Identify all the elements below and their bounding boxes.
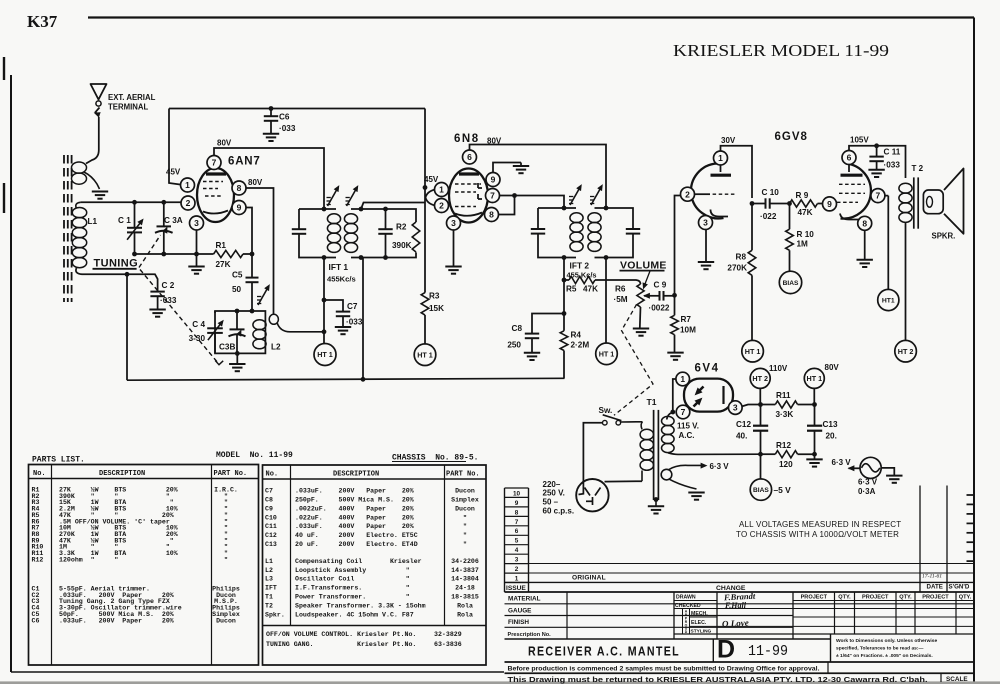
terminal HT1 under R8 bbox=[742, 340, 764, 362]
svg-text:20.: 20. bbox=[826, 432, 837, 441]
svg-text:R 9: R 9 bbox=[796, 191, 809, 200]
wire 6.3V winding to pilot bbox=[668, 465, 703, 470]
svg-text:1: 1 bbox=[439, 185, 444, 195]
wire pins 1 2 to 45V rail bbox=[426, 190, 436, 198]
svg-text:27K: 27K bbox=[216, 260, 231, 269]
svg-text:SPKR.: SPKR. bbox=[932, 232, 956, 241]
svg-text:K37: K37 bbox=[27, 12, 58, 31]
svg-text:7: 7 bbox=[212, 158, 217, 168]
speaker voice coil bbox=[923, 190, 943, 214]
pin 2 of 6N8 bbox=[435, 199, 449, 213]
svg-text:270K: 270K bbox=[727, 264, 747, 273]
svg-text:7: 7 bbox=[681, 407, 686, 417]
pin 9 of 6GV8 pentode bbox=[823, 197, 837, 211]
capacitor C8 250 bbox=[532, 314, 564, 334]
sheet border frame bbox=[88, 16, 974, 18]
svg-text:6AN7: 6AN7 bbox=[228, 156, 261, 168]
svg-text:L1: L1 bbox=[265, 558, 273, 565]
capacitor C13 20uF bbox=[814, 405, 816, 426]
IFT1 core arrow secondary bbox=[347, 188, 358, 207]
node C1 top bbox=[132, 200, 137, 205]
mains plug 220-250V bbox=[576, 479, 608, 511]
svg-text:3: 3 bbox=[703, 218, 708, 228]
svg-text:80V: 80V bbox=[825, 363, 840, 372]
node IFT1 primary bottom bbox=[322, 255, 327, 260]
svg-text:2: 2 bbox=[685, 189, 690, 199]
T2 core bbox=[913, 177, 915, 228]
svg-text:3-30: 3-30 bbox=[189, 334, 206, 343]
svg-text:SCALE: SCALE bbox=[946, 676, 968, 683]
svg-text:·0022: ·0022 bbox=[649, 304, 670, 313]
svg-text:R7: R7 bbox=[681, 315, 692, 324]
svg-text:Work to Dimensions only. Unle: Work to Dimensions only. Unless otherwis… bbox=[836, 638, 937, 644]
date signed columns bbox=[919, 486, 921, 593]
svg-text:10M: 10M bbox=[680, 326, 696, 335]
capacitor C4 3-30 osc trimmer bbox=[207, 327, 223, 329]
svg-text:± 1/64" on Fractions. ± .005": ± 1/64" on Fractions. ± .005" on Decimal… bbox=[836, 653, 933, 659]
svg-text:Prescription No.: Prescription No. bbox=[508, 632, 552, 638]
svg-text:IFT: IFT bbox=[265, 585, 277, 592]
svg-text:PART No.: PART No. bbox=[446, 471, 480, 479]
svg-text:60 c.p.s.: 60 c.p.s. bbox=[543, 507, 575, 516]
6AN7 cathode bbox=[203, 211, 228, 214]
svg-text:110V: 110V bbox=[769, 364, 788, 373]
node IFT1 sec cap bottom bbox=[383, 255, 388, 260]
svg-text:": " bbox=[463, 532, 467, 539]
svg-text:40 uF. 200V Electro. ET5: 40 uF. 200V Electro. ET5C bbox=[295, 532, 418, 539]
svg-text:IFT 1: IFT 1 bbox=[329, 262, 349, 272]
wire plug to T1 primary bottom bbox=[605, 480, 643, 482]
svg-text:QTY.: QTY. bbox=[838, 595, 851, 601]
pin 7 of 6N8 bbox=[486, 189, 500, 203]
svg-text:Loopstick Assembly ": Loopstick Assembly " bbox=[295, 567, 410, 574]
node IFT1 sec cap top bbox=[383, 207, 388, 212]
svg-text:Ducon: Ducon bbox=[455, 505, 475, 512]
svg-text:7: 7 bbox=[515, 519, 519, 526]
svg-text:Speaker Transformer. 3.3K - 15: Speaker Transformer. 3.3K - 15ohm bbox=[295, 602, 426, 609]
wire pin2 from tuner rail bbox=[181, 201, 183, 203]
oscillator slug arrow bbox=[258, 287, 269, 306]
node pin7 junction bbox=[512, 193, 517, 198]
svg-text:S'GN'D: S'GN'D bbox=[949, 584, 970, 591]
resistor R10 1M bbox=[789, 204, 791, 230]
capacitor C7 .033 bbox=[324, 300, 343, 312]
svg-text:5: 5 bbox=[515, 538, 519, 545]
oscillator box C4 C3B L2 bbox=[215, 311, 265, 353]
svg-text:Before production is commenced: Before production is commenced 2 samples… bbox=[508, 666, 820, 673]
svg-text:9: 9 bbox=[237, 203, 242, 213]
svg-text:FINISH: FINISH bbox=[508, 619, 529, 626]
terminal BIAS -5V bbox=[750, 479, 771, 500]
svg-text:6V4: 6V4 bbox=[695, 363, 720, 375]
svg-text:45V: 45V bbox=[424, 175, 439, 184]
svg-text:HT 1: HT 1 bbox=[599, 349, 615, 358]
svg-text:6: 6 bbox=[467, 152, 472, 162]
6GV8 triode cathode bbox=[711, 210, 729, 217]
wire pin3 to ground bbox=[453, 230, 455, 267]
svg-text:R3: R3 bbox=[429, 292, 440, 301]
node bus IFT1 secondary return bbox=[361, 377, 366, 382]
svg-text:Ducon: Ducon bbox=[455, 488, 475, 495]
node C13 bottom ground bbox=[812, 452, 817, 457]
resistor R7 10M bbox=[674, 295, 676, 315]
parts table right box bbox=[263, 465, 487, 665]
node C1 bottom bbox=[132, 252, 137, 257]
pin 1 of 6N8 bbox=[435, 183, 449, 197]
wire pin8 cathode ground bbox=[864, 226, 866, 260]
terminal BIAS under R10 bbox=[779, 271, 801, 293]
title RECEIVER A.C. MANTEL bbox=[712, 639, 714, 662]
op tube 6N8 envelope bbox=[449, 169, 488, 223]
pin 8 of 6N8 bbox=[485, 208, 499, 222]
svg-text:HT 2: HT 2 bbox=[898, 347, 914, 356]
drawn checked block bbox=[673, 592, 675, 639]
svg-text:C 3A: C 3A bbox=[164, 216, 183, 225]
svg-text:115 V.: 115 V. bbox=[677, 421, 699, 430]
svg-text:Compensating Coil Kriesl: Compensating Coil Kriesler bbox=[295, 558, 422, 565]
coil L2 oscillator bbox=[253, 320, 266, 330]
resistor R11 3-3K bbox=[775, 401, 797, 408]
node IFT1 sec top bbox=[359, 207, 364, 212]
svg-text:250pF. 500V Mica M.S. 20%: 250pF. 500V Mica M.S. 20% bbox=[295, 497, 414, 504]
volume pot R6 wire bbox=[606, 280, 641, 284]
svg-text:C6: C6 bbox=[32, 617, 40, 624]
svg-text:C13: C13 bbox=[265, 541, 277, 548]
wire pin1 plate to C10 node bbox=[720, 165, 722, 172]
svg-text:R 10: R 10 bbox=[797, 230, 815, 239]
node C3A bottom bbox=[161, 252, 166, 257]
svg-text:Spkr.: Spkr. bbox=[265, 611, 285, 618]
node C13 top bbox=[812, 402, 817, 407]
svg-text:6·3 V: 6·3 V bbox=[710, 462, 730, 471]
iron core dashes of L1 bbox=[63, 155, 65, 302]
dashed gang line tuning to C3A C2 C4 bbox=[139, 235, 161, 268]
wire antenna lead to coupling coil bbox=[86, 117, 99, 164]
6GV8 pentode grids dashed bbox=[839, 183, 865, 185]
svg-text:.022uF. 400V Paper 20%: .022uF. 400V Paper 20% bbox=[295, 514, 414, 521]
node C12 top bbox=[758, 402, 763, 407]
svg-text:50 –: 50 – bbox=[543, 498, 559, 507]
pilot lamp 6-3V 0-3A bbox=[860, 457, 881, 478]
svg-text:2: 2 bbox=[439, 201, 444, 211]
svg-text:R4: R4 bbox=[571, 331, 582, 340]
wire HT winding bottom to bias tap bbox=[668, 453, 761, 455]
wire IFT1 primary bottom down bbox=[323, 258, 325, 344]
svg-text:D: D bbox=[717, 636, 735, 664]
svg-text:.033uF. 200V Paper 20%: .033uF. 200V Paper 20% bbox=[295, 488, 414, 495]
svg-text:8: 8 bbox=[515, 509, 519, 516]
6GV8 triode grid dashed bbox=[707, 193, 736, 195]
svg-text:6GV8: 6GV8 bbox=[775, 131, 808, 143]
svg-text:QTY.: QTY. bbox=[959, 595, 972, 601]
svg-text:1: 1 bbox=[680, 374, 685, 384]
svg-text:Ducon: Ducon bbox=[216, 617, 236, 624]
svg-text:OFF/ON VOLUME CONTROL. Kriesle: OFF/ON VOLUME CONTROL. Kriesler Pt.No. bbox=[266, 631, 416, 638]
svg-text:34-2206: 34-2206 bbox=[451, 558, 479, 565]
svg-text:HT 1: HT 1 bbox=[317, 350, 333, 359]
svg-text:9: 9 bbox=[515, 500, 519, 507]
svg-text:": " bbox=[463, 541, 467, 548]
svg-text:·033: ·033 bbox=[160, 296, 177, 305]
capacitor C3A trimmer bbox=[163, 202, 165, 226]
tube 6V4 rectifier envelope bbox=[684, 379, 733, 412]
wire to BIAS bbox=[760, 454, 762, 479]
svg-text:TERMINAL: TERMINAL bbox=[108, 103, 149, 112]
svg-text:HT 1: HT 1 bbox=[417, 350, 433, 359]
6GV8 triode anode bar bbox=[711, 174, 732, 177]
pin 8 of 6AN7 bbox=[232, 181, 246, 195]
node C8 R4 branch bbox=[562, 311, 567, 316]
wire pin6 plate to IFT2 bbox=[470, 145, 607, 209]
svg-text:DATE: DATE bbox=[927, 584, 943, 591]
svg-text:R12: R12 bbox=[776, 441, 791, 450]
svg-text:DRAWN: DRAWN bbox=[676, 595, 696, 601]
svg-text:TUNING GANG. Kriesle: TUNING GANG. Kriesler Pt.No. bbox=[266, 641, 416, 648]
wire pin3 to cathode rail bbox=[196, 230, 198, 254]
node osc coupling bbox=[322, 329, 327, 334]
pin 7 of 6V4 bbox=[676, 405, 690, 419]
node 6V4 heater HT winding bbox=[670, 410, 675, 415]
svg-text:11-99: 11-99 bbox=[748, 644, 788, 660]
wire IFT2 primary bottom down R4 bbox=[563, 258, 565, 331]
6V4 cathode bar bbox=[722, 386, 724, 404]
transformer T1 core bbox=[653, 410, 655, 500]
node C11 bbox=[874, 143, 879, 148]
svg-text:": " bbox=[463, 514, 467, 521]
svg-text:No.: No. bbox=[33, 470, 46, 478]
wire pin7 to HT1 bbox=[871, 195, 888, 197]
svg-text:C10: C10 bbox=[265, 514, 277, 521]
svg-text:IFT 2: IFT 2 bbox=[570, 260, 590, 270]
svg-text:PROJECT: PROJECT bbox=[862, 595, 889, 601]
wire 6.3V winding bottom bbox=[669, 479, 697, 489]
svg-text:L2: L2 bbox=[271, 343, 281, 352]
node IFT1 sec bottom bbox=[359, 255, 364, 260]
transformer IFT1 primary tank bbox=[299, 208, 336, 210]
svg-text:L1: L1 bbox=[88, 217, 98, 226]
svg-text:C3B: C3B bbox=[219, 343, 235, 352]
wire bottom rail of tuner bbox=[135, 253, 214, 255]
IFT2 core arrow primary bbox=[570, 187, 581, 206]
svg-text:1: 1 bbox=[515, 575, 519, 582]
pin 3 of 6V4 bbox=[729, 401, 743, 415]
svg-text:14-3837: 14-3837 bbox=[451, 567, 479, 574]
svg-text:KRIESLER MODEL 11-99: KRIESLER MODEL 11-99 bbox=[673, 41, 889, 60]
capacitor C5 50pF bbox=[251, 254, 253, 278]
svg-text:": " bbox=[224, 556, 228, 563]
transformer IFT1 secondary tank bbox=[344, 214, 357, 224]
pin 9 of 6AN7 bbox=[232, 201, 246, 215]
terminal HT1 under R3 bbox=[414, 344, 436, 366]
terminal HT2 under T2 bbox=[895, 340, 917, 362]
svg-text:HT1: HT1 bbox=[882, 298, 895, 305]
aerial coupling coil bbox=[72, 162, 87, 173]
wire 45V rail down to R3 HT1 bbox=[424, 109, 426, 293]
svg-text:18-3815: 18-3815 bbox=[451, 594, 479, 601]
svg-text:10: 10 bbox=[513, 490, 521, 497]
svg-text:1M: 1M bbox=[797, 240, 809, 249]
svg-text:R11: R11 bbox=[776, 391, 791, 400]
svg-text:0·3A: 0·3A bbox=[858, 487, 876, 496]
svg-text:C11: C11 bbox=[265, 523, 277, 530]
svg-text:BIAS: BIAS bbox=[753, 487, 769, 494]
pin 3 of 6N8 bbox=[447, 216, 461, 230]
ext aerial terminal antenna bbox=[91, 84, 107, 100]
wire pin9 to ground bbox=[493, 163, 521, 174]
svg-text:6·3 V: 6·3 V bbox=[858, 478, 878, 487]
svg-text:17-11-61: 17-11-61 bbox=[922, 574, 942, 580]
svg-text:L2: L2 bbox=[265, 567, 273, 574]
wire pin8 oscillator anode to feedback coil bbox=[246, 188, 274, 315]
svg-text:250 V.: 250 V. bbox=[543, 489, 565, 498]
svg-text:9: 9 bbox=[491, 175, 496, 185]
wire switch to mains plug bbox=[579, 423, 603, 495]
svg-text:C 10: C 10 bbox=[762, 188, 780, 197]
pin 7 of 6GV8 pentode bbox=[871, 189, 885, 203]
tube 6GV8 triode envelope bbox=[691, 164, 724, 219]
svg-text:50: 50 bbox=[232, 285, 242, 294]
dashed link volume to switch bbox=[614, 305, 653, 416]
svg-text:250: 250 bbox=[507, 341, 521, 350]
node plate C10 R8 bbox=[750, 201, 755, 206]
resistor R1 27K bbox=[214, 250, 243, 257]
svg-text:1: 1 bbox=[718, 153, 723, 163]
svg-text:MODEL No. 11-99: MODEL No. 11-99 bbox=[216, 451, 293, 460]
6N8 grids dashed bbox=[455, 183, 481, 185]
pin 2 of 6AN7 bbox=[181, 196, 195, 210]
terminal HT2 output bbox=[750, 368, 770, 388]
svg-text:DESCRIPTION: DESCRIPTION bbox=[99, 470, 145, 478]
svg-text:MECH.: MECH. bbox=[691, 611, 708, 617]
svg-text:C 4: C 4 bbox=[192, 320, 205, 329]
svg-text:HT 1: HT 1 bbox=[807, 374, 823, 383]
border ticks bbox=[967, 494, 975, 496]
svg-text:7: 7 bbox=[490, 191, 495, 201]
svg-text:C 2: C 2 bbox=[162, 281, 175, 290]
pin 7 of 6AN7 bbox=[207, 156, 221, 170]
6GV8 pentode anode bar bbox=[841, 174, 863, 177]
svg-text:C8: C8 bbox=[265, 497, 273, 504]
pin 3 of 6GV8 bbox=[699, 216, 713, 230]
pin 1 of 6V4 bbox=[676, 372, 690, 386]
node R12 left bbox=[758, 452, 763, 457]
svg-text:40.: 40. bbox=[736, 432, 747, 441]
svg-text:14-3804: 14-3804 bbox=[451, 576, 479, 583]
pin 6 of 6GV8 pentode bbox=[842, 151, 856, 165]
svg-text:QTY.: QTY. bbox=[899, 595, 912, 601]
svg-text:3: 3 bbox=[451, 218, 456, 228]
svg-text:C 11: C 11 bbox=[884, 148, 901, 157]
ground aerial coil bbox=[92, 191, 108, 193]
resistor R3 15K bbox=[421, 293, 429, 315]
svg-text:390K: 390K bbox=[392, 241, 412, 250]
svg-text:Rola: Rola bbox=[457, 602, 473, 609]
svg-text:8: 8 bbox=[862, 218, 867, 228]
svg-text:Sw.: Sw. bbox=[599, 406, 613, 415]
capacitor C9 .0022 bbox=[659, 291, 661, 301]
6GV8 pentode cathode bbox=[840, 214, 866, 220]
capacitor C11 .033 bbox=[876, 146, 878, 157]
speaker cone bbox=[944, 169, 964, 234]
6N8 cathode bbox=[455, 213, 482, 216]
svg-text:·033: ·033 bbox=[346, 318, 363, 327]
6N8 diode plates bbox=[478, 183, 482, 188]
resistor R4 2-2M bbox=[560, 331, 568, 351]
issue table bbox=[505, 487, 529, 489]
capacitor C1 variable aerial trimmer bbox=[134, 202, 136, 228]
svg-text:C 1: C 1 bbox=[118, 216, 131, 225]
node C7 branch bbox=[322, 298, 327, 303]
svg-text:TO CHASSIS WITH A 1000Ω/VOLT: TO CHASSIS WITH A 1000Ω/VOLT METER bbox=[736, 530, 899, 539]
resistor R2 390K bbox=[412, 222, 420, 252]
node R1 right C5 top bbox=[250, 252, 255, 257]
svg-text:RECEIVER A.C. MANTEL: RECEIVER A.C. MANTEL bbox=[528, 644, 680, 659]
ground 6AN7 cathode bbox=[196, 254, 198, 267]
svg-text:Oscillator Coil ": Oscillator Coil " bbox=[295, 576, 410, 583]
svg-text:455Kc/s: 455Kc/s bbox=[327, 275, 356, 284]
capacitor C6 .033 bbox=[270, 109, 272, 117]
svg-text:C13: C13 bbox=[823, 420, 838, 429]
volume pointer arrow bbox=[644, 271, 650, 287]
svg-text:C12: C12 bbox=[736, 420, 751, 429]
T1 primary winding bbox=[641, 422, 642, 430]
IFT1 core arrow primary bbox=[328, 188, 339, 207]
wire pin2 grid bbox=[695, 193, 711, 195]
T1 HT winding bbox=[662, 416, 675, 425]
svg-text:PROJECT: PROJECT bbox=[922, 595, 949, 601]
resistor R9 47K bbox=[790, 200, 818, 207]
svg-text:DESCRIPTION: DESCRIPTION bbox=[333, 471, 379, 479]
svg-text:·033: ·033 bbox=[884, 161, 901, 170]
svg-text:O Love: O Love bbox=[722, 618, 749, 629]
svg-text:3: 3 bbox=[515, 557, 519, 564]
terminal HT1 under IFT1 bbox=[314, 344, 336, 366]
op tube 6AN7 envelope bbox=[197, 168, 234, 222]
6AN7 grids dashed bbox=[203, 181, 223, 183]
capacitor C2 .033 bbox=[150, 291, 164, 293]
wire switch to T1 primary top bbox=[621, 421, 643, 423]
wire pin1 to pin7 node bbox=[673, 379, 677, 412]
node 45V 6N8 grid return bbox=[423, 185, 428, 190]
svg-text:.033uF. 400V Paper 20%: .033uF. 400V Paper 20% bbox=[295, 523, 414, 530]
capacitor C12 40uF bbox=[760, 405, 762, 426]
6AN7 anode bar bbox=[206, 172, 226, 175]
svg-text:L3: L3 bbox=[265, 576, 273, 583]
coil L1 tuning bbox=[76, 202, 81, 208]
svg-text:F.Hall: F.Hall bbox=[724, 601, 747, 610]
svg-text:.033uF. 200V Paper 20%: .033uF. 200V Paper 20% bbox=[59, 617, 174, 624]
wire AVC ground bus bbox=[127, 378, 565, 380]
svg-text:4: 4 bbox=[515, 547, 519, 554]
tube 6GV8 pentode envelope bbox=[841, 164, 871, 219]
svg-text:ORIGINAL: ORIGINAL bbox=[572, 574, 606, 581]
svg-text:R6: R6 bbox=[615, 285, 626, 294]
svg-text:80V: 80V bbox=[217, 139, 232, 148]
svg-text:120: 120 bbox=[779, 460, 793, 469]
svg-text:MATERIAL: MATERIAL bbox=[508, 596, 541, 603]
svg-text:20 uF. 200V Electro. ET4: 20 uF. 200V Electro. ET4D bbox=[295, 541, 418, 548]
wire pin7 pin8 to IFT2 primary top bbox=[500, 196, 565, 209]
svg-text:No.: No. bbox=[266, 471, 279, 479]
wire pin3 cathode to ground bbox=[705, 217, 707, 262]
svg-text:PART No.: PART No. bbox=[214, 470, 248, 478]
wire AVC bus drop from tuning node bbox=[126, 274, 128, 380]
parts table left box bbox=[29, 465, 259, 666]
capacitor C10 .022 bbox=[752, 203, 766, 205]
pot bottom to ground bbox=[639, 307, 642, 328]
svg-text:7: 7 bbox=[876, 191, 881, 201]
svg-text:ELEC.: ELEC. bbox=[691, 620, 707, 626]
